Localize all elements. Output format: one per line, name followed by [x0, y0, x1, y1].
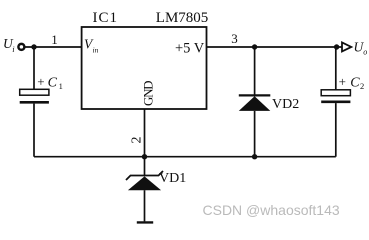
svg-text:GND: GND — [141, 81, 156, 106]
svg-text:3: 3 — [231, 31, 238, 46]
svg-text:VD1: VD1 — [159, 171, 186, 186]
svg-text:1: 1 — [59, 81, 63, 91]
capacitor C2 — [321, 47, 350, 157]
svg-text:VD2: VD2 — [272, 97, 299, 112]
pin label Vin — [84, 36, 99, 54]
svg-text:in: in — [93, 45, 99, 54]
label + C1 — [37, 74, 63, 91]
svg-text:2: 2 — [360, 81, 364, 91]
label Uo — [354, 40, 368, 57]
wire IC pin2 (GND) — [144, 109, 146, 157]
svg-text:1: 1 — [51, 32, 58, 47]
svg-text:IC1: IC1 — [93, 10, 119, 26]
wire ground rail — [34, 156, 336, 158]
svg-text:LM7805: LM7805 — [156, 10, 209, 26]
svg-text:+5 V: +5 V — [175, 40, 205, 56]
output terminal arrow — [342, 42, 351, 51]
svg-text:o: o — [363, 47, 367, 56]
capacitor C1 — [20, 47, 49, 157]
regulator IC1 LM7805 box — [82, 27, 207, 109]
input terminal — [18, 44, 24, 50]
label Ui — [3, 36, 15, 54]
svg-text:CSDN @whaosoft143: CSDN @whaosoft143 — [203, 202, 340, 218]
zener diode VD1 — [126, 157, 163, 222]
node C2 top junction — [334, 44, 339, 49]
svg-text:C: C — [350, 76, 360, 91]
label + C2 — [339, 74, 365, 91]
node VD1 junction — [142, 154, 147, 159]
svg-text:2: 2 — [130, 137, 145, 144]
node VD2 top junction — [252, 44, 257, 49]
svg-text:+: + — [37, 74, 44, 89]
diode VD2 — [239, 47, 270, 157]
svg-text:C: C — [48, 76, 58, 91]
wire input to IC pin1 — [24, 46, 81, 48]
ground terminal bar — [137, 221, 153, 223]
wire IC pin3 to output — [207, 46, 343, 48]
node input junction — [31, 44, 36, 49]
svg-text:+: + — [339, 74, 346, 89]
node VD2 bottom junction — [252, 154, 257, 159]
